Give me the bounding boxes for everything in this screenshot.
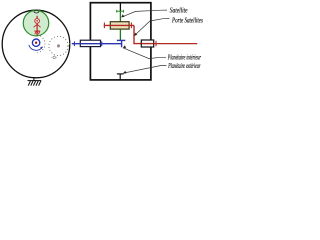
ring gear bottom section: [117, 74, 124, 80]
leader Planetaire exterieur: [123, 66, 166, 74]
small phantom contact marker: [51, 55, 57, 59]
phantom pivot marker: [57, 45, 59, 47]
svg-text:Satellite: Satellite: [170, 7, 188, 14]
frame box (bati): [90, 3, 150, 80]
carrier output shaft (red): [154, 43, 198, 45]
carrier arm (red): [36, 16, 38, 36]
ground: [28, 77, 42, 85]
shaft tick right: [101, 41, 103, 46]
bearing in left wall: [80, 40, 100, 46]
mesh mark ring/satellite: [34, 12, 40, 14]
rotation arrow (blue): [29, 45, 43, 50]
satellite (planet gear): [23, 10, 49, 35]
carrier support T with hatching (red): [34, 31, 40, 34]
carrier pitch dotted arc (locus of planet centre): [27, 26, 45, 28]
satellite axis lower (green): [119, 29, 121, 40]
main pivot carrier/frame (blue): [32, 39, 39, 46]
sun gear (blue): [117, 39, 125, 41]
satellite gear: [110, 22, 129, 29]
leader Satellite: [121, 10, 167, 17]
sun shaft (blue): [72, 43, 122, 45]
svg-text:Planétaire extérieur: Planétaire extérieur: [168, 63, 201, 70]
svg-text:Porte Satellites: Porte Satellites: [171, 18, 203, 25]
leader Porte Satellites: [134, 19, 169, 36]
phantom satellite (alternate position, dotted): [49, 36, 68, 55]
axle end tick right: [130, 23, 132, 29]
mesh mark ring/satellite (green): [116, 10, 123, 13]
svg-text:Planétaire intérieur: Planétaire intérieur: [167, 55, 201, 62]
bearing/gear in right wall: [141, 40, 153, 47]
shaft tick left: [73, 41, 75, 46]
ring gear outer circle (planetaire exterieur, fixed): [2, 10, 70, 78]
ring gear support from frame top: [119, 3, 121, 12]
carrier link arms (red): [34, 24, 41, 27]
carrier axle through satellite (red): [104, 24, 134, 26]
axle end tick left: [103, 23, 105, 29]
carrier elbow (red): [134, 25, 141, 43]
leader Planetaire interieur: [123, 48, 166, 59]
axis dots: [69, 43, 72, 44]
satellite axis upper (green): [119, 11, 121, 22]
output shaft tick (red): [155, 41, 157, 47]
sun gear pitch dotted circle: [37, 35, 45, 53]
pivot satellite/carrier: [35, 19, 40, 24]
